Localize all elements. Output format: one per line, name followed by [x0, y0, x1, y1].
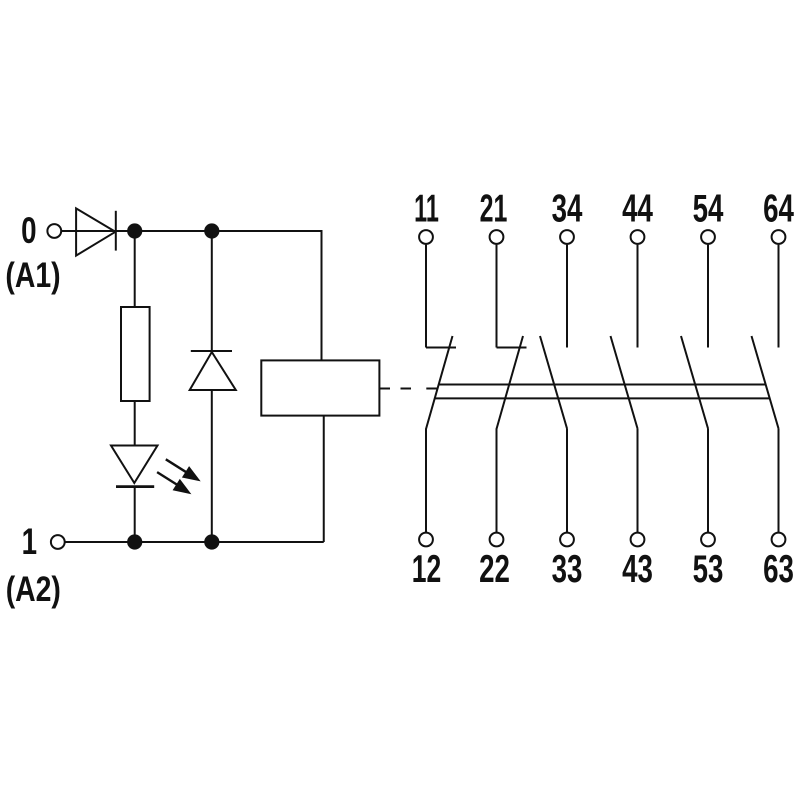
- terminal 33: [560, 533, 574, 547]
- wire contact 2 to terminal 22: [496, 429, 498, 533]
- wire contact 4 to terminal 43: [637, 429, 639, 533]
- svg-text:11: 11: [414, 186, 439, 230]
- wire contact 1 to terminal 12: [425, 429, 427, 533]
- wire terminal 21 down: [496, 245, 498, 348]
- terminal 21: [490, 230, 504, 244]
- svg-text:21: 21: [480, 186, 508, 230]
- svg-text:44: 44: [622, 187, 653, 231]
- wire A1 terminal to node A: [62, 230, 135, 232]
- svg-text:(A1): (A1): [5, 255, 60, 295]
- terminal 11: [419, 230, 433, 244]
- wire node D down to flyback diode: [211, 231, 213, 351]
- contact 1 fixed stub: [426, 347, 456, 349]
- wire terminal 54 down: [707, 245, 709, 348]
- svg-text:54: 54: [693, 187, 724, 231]
- svg-text:12: 12: [412, 548, 441, 591]
- top rail wire node A to coil corner: [135, 230, 322, 232]
- node B junction dot: [127, 534, 142, 549]
- terminal 53: [701, 533, 715, 547]
- contact bridge bus line upper: [439, 384, 766, 386]
- terminal 34: [560, 230, 574, 244]
- wire terminal 34 down: [566, 245, 568, 348]
- bottom rail wire: [65, 541, 324, 543]
- wire contact 6 to terminal 63: [778, 429, 780, 533]
- LED arrow 1: [166, 459, 201, 481]
- svg-text:63: 63: [763, 547, 794, 591]
- LED triangle: [111, 446, 158, 484]
- node A junction dot: [127, 223, 142, 238]
- wire node A down to resistor: [134, 231, 136, 307]
- terminal 64: [772, 230, 786, 244]
- svg-text:(A2): (A2): [6, 569, 61, 609]
- wire coil bottom to bottom rail: [323, 416, 325, 542]
- svg-text:33: 33: [552, 547, 583, 591]
- terminal 12: [419, 533, 433, 547]
- contact 1 NC arm: [426, 336, 453, 429]
- svg-text:0: 0: [21, 209, 36, 251]
- wire LED to node B: [134, 487, 136, 542]
- wire resistor to LED: [134, 401, 136, 446]
- wire corner down to coil top: [321, 230, 323, 360]
- terminal 44: [631, 230, 645, 244]
- LED cathode bar: [116, 485, 154, 488]
- wire terminal 11 down: [425, 245, 427, 348]
- svg-text:34: 34: [552, 187, 583, 231]
- coil actuation dashed link: [379, 388, 437, 390]
- wire terminal 64 down: [778, 245, 780, 348]
- terminal 1 (A2): [51, 535, 65, 549]
- LED arrow 2: [157, 472, 191, 494]
- flyback diode cathode bar: [191, 350, 232, 352]
- contact 6 NO arm: [752, 336, 779, 429]
- terminal 63: [772, 533, 786, 547]
- contact 2 NC arm: [497, 336, 524, 429]
- wire contact 3 to terminal 33: [566, 429, 568, 533]
- resistor R1: [121, 307, 150, 401]
- svg-text:22: 22: [479, 547, 510, 591]
- terminal 54: [701, 230, 715, 244]
- contact 5 NO arm: [681, 336, 708, 429]
- contact 4 NO arm: [611, 336, 638, 429]
- relay coil K1: [261, 360, 379, 415]
- series diode cathode bar: [115, 211, 117, 251]
- flyback diode triangle: [190, 352, 236, 390]
- series diode anode triangle: [76, 208, 115, 255]
- svg-text:43: 43: [622, 547, 653, 591]
- svg-text:64: 64: [763, 187, 794, 231]
- contact 2 fixed stub: [497, 347, 527, 349]
- svg-text:53: 53: [693, 547, 724, 591]
- wire terminal 44 down: [637, 245, 639, 348]
- terminal 22: [490, 533, 504, 547]
- svg-text:1: 1: [22, 520, 37, 562]
- node D junction dot top: [204, 223, 219, 238]
- contact 3 NO arm: [540, 336, 567, 429]
- contact bridge bus line lower: [435, 397, 770, 399]
- wire contact 5 to terminal 53: [707, 429, 709, 533]
- terminal 0 (A1): [47, 224, 61, 238]
- terminal 43: [631, 533, 645, 547]
- wire flyback diode to node C: [211, 390, 213, 542]
- node C junction dot: [204, 534, 219, 549]
